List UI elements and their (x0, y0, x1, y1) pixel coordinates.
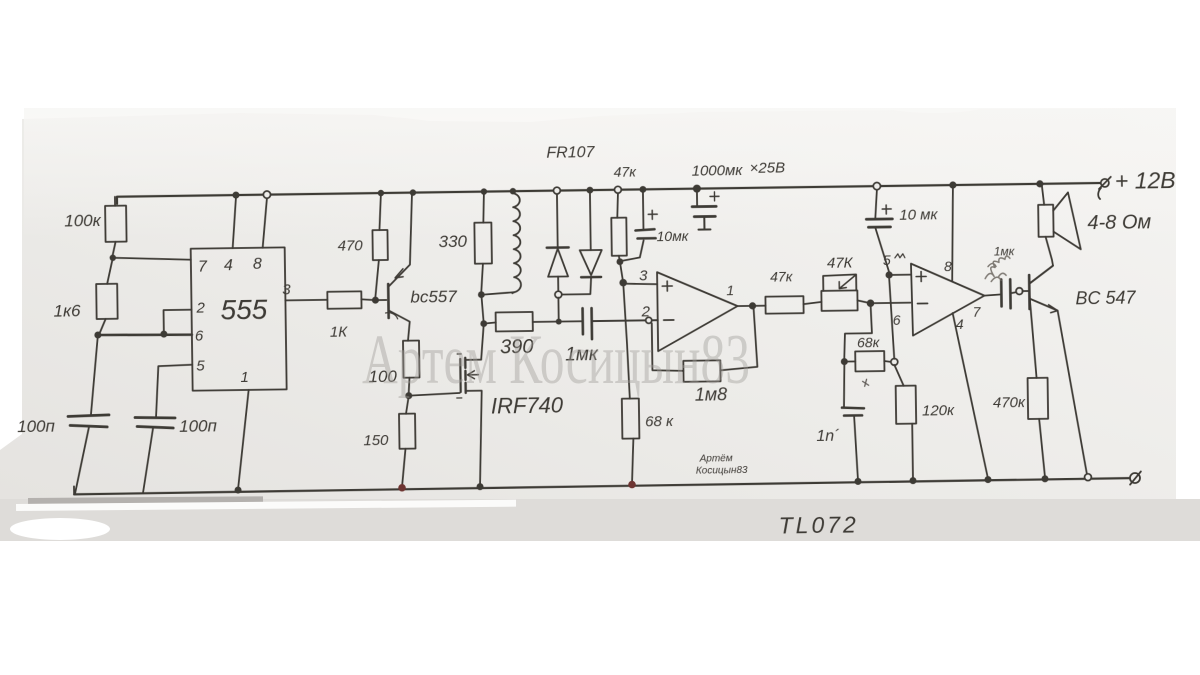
resistor 1k6 (96, 258, 118, 335)
MOSFET IRF740 (456, 354, 483, 491)
wire pins 2 and 6 (98, 310, 192, 339)
transistor Q1 bc557 (374, 189, 418, 341)
capacitor 1000uF 25V (692, 184, 720, 229)
svg-text:10 мк: 10 мк (899, 206, 938, 224)
speaker 4-8 Ohm (1029, 180, 1081, 283)
svg-text:555: 555 (220, 294, 268, 326)
svg-text:×25В: ×25В (749, 159, 785, 176)
capacitor 1n (841, 364, 865, 485)
svg-text:8: 8 (944, 258, 952, 274)
capacitor 10uF #1 (622, 186, 658, 261)
svg-text:FR107: FR107 (546, 144, 595, 162)
svg-text:1n´: 1n´ (816, 428, 840, 445)
potentiometer 47K (821, 274, 870, 311)
svg-text:100п: 100п (17, 417, 56, 437)
speck mark (863, 379, 869, 386)
capacitor 100n #1 (67, 335, 110, 494)
svg-text:100к: 100к (64, 211, 102, 231)
svg-text:5: 5 (196, 358, 205, 375)
node pin5 junction (885, 271, 892, 278)
svg-text:47к: 47к (614, 163, 638, 179)
ground terminal (1130, 471, 1141, 484)
svg-text:Артем Косицын83: Артем Косицын83 (362, 321, 750, 399)
svg-text:4: 4 (224, 257, 233, 274)
svg-text:1мк: 1мк (994, 244, 1016, 258)
resistor 1K (327, 291, 375, 309)
node 390 junction (480, 320, 487, 327)
svg-text:3: 3 (639, 267, 648, 284)
junction dot red 68k/ground (628, 481, 636, 489)
svg-text:470: 470 (338, 237, 364, 254)
resistor 120k (894, 365, 917, 485)
wire drain riser (480, 295, 484, 359)
resistor 390 (496, 311, 583, 331)
wire +12V top power rail (117, 183, 1100, 204)
node pin7/100k/1k6 junction (110, 255, 116, 261)
svg-text:6: 6 (893, 312, 901, 328)
svg-text:100п: 100п (179, 416, 218, 436)
op-amp U1A TL072 (657, 271, 738, 351)
wire pin 5 (155, 365, 193, 418)
svg-text:7: 7 (198, 258, 208, 275)
svg-text:Косицын83: Косицын83 (696, 465, 748, 477)
node pin6/1k6 junction (94, 331, 101, 338)
resistor 47k vertical (611, 186, 627, 262)
wire gate (409, 393, 460, 396)
svg-text:BC 547: BC 547 (1075, 288, 1136, 309)
svg-text:47К: 47К (827, 254, 854, 271)
node gate junction (405, 392, 412, 399)
resistor 1M8 feedback (652, 308, 758, 382)
svg-text:120к: 120к (922, 402, 955, 419)
node pot junction (867, 299, 875, 307)
wire pot to 68k (844, 303, 873, 358)
svg-text:47к: 47к (770, 268, 794, 284)
node pin3 junction (616, 258, 627, 286)
svg-text:1: 1 (726, 282, 734, 298)
wire pin 4 to rail (232, 192, 240, 249)
node diode common (555, 291, 562, 324)
svg-text:1К: 1К (330, 324, 349, 341)
resistor 68k #1 (620, 282, 640, 483)
resistor 470 (372, 190, 388, 297)
svg-text:3: 3 (282, 281, 291, 298)
inductor L1 (476, 188, 521, 298)
resistor 68k #2 (841, 351, 898, 372)
svg-text:68 к: 68 к (645, 413, 674, 430)
+12V terminal (1098, 177, 1111, 199)
svg-text:bc557: bc557 (410, 287, 457, 307)
capacitor 1uF film (583, 307, 658, 339)
resistor 47k horizontal (765, 296, 821, 314)
svg-text:68к: 68к (857, 334, 881, 350)
wire pin 3 (285, 299, 327, 302)
wire pin 8 to rail (262, 191, 271, 248)
resistor 100 (403, 341, 420, 393)
resistor 330 (474, 188, 492, 291)
svg-text:+ 12В: + 12В (1115, 167, 1176, 194)
svg-text:1к6: 1к6 (53, 301, 81, 320)
wire op-amp2 +input (889, 274, 911, 276)
svg-text:TL072: TL072 (778, 511, 859, 538)
wire signal node (484, 322, 496, 323)
wire pin 8 to rail (949, 181, 958, 281)
junction dot red 150/ground (398, 484, 406, 492)
wire pin 1 to ground (233, 390, 250, 494)
scribble smudge (985, 256, 1010, 282)
wire riser pin5 to 68k (889, 278, 894, 359)
svg-text:6: 6 (195, 328, 204, 345)
svg-text:4-8 Ом: 4-8 Ом (1087, 211, 1151, 234)
capacitor 10uF #2 (866, 182, 893, 272)
wire op-amp1 output (737, 302, 765, 310)
svg-text:5: 5 (883, 252, 891, 268)
resistor 150 (399, 396, 416, 487)
wire op-amp2 -input (871, 302, 911, 305)
transistor Q2 BC547 (1029, 265, 1091, 481)
IC U1 555 timer (191, 247, 287, 390)
node base junction bc557 (372, 297, 379, 304)
resistor 100k (105, 197, 127, 255)
wire pin 4 to ground (953, 313, 992, 484)
wire op-amp1 -input (592, 317, 658, 324)
svg-text:470к: 470к (993, 394, 1026, 411)
capacitor 100n #2 (135, 417, 176, 493)
svg-text:1: 1 (240, 369, 249, 386)
ground rail bottom wire (74, 478, 1130, 494)
svg-text:2: 2 (195, 300, 205, 317)
svg-text:Артём: Артём (699, 453, 733, 464)
svg-text:330: 330 (438, 232, 467, 251)
svg-text:1000мк: 1000мк (692, 162, 744, 180)
scribble mark (895, 254, 905, 258)
svg-text:8: 8 (253, 256, 262, 273)
wire op-amp1 +input (623, 283, 657, 284)
signature on paper (696, 453, 748, 477)
wire pin 7 (113, 257, 191, 261)
resistor 470k (1026, 294, 1049, 483)
diode D2 (560, 187, 602, 295)
svg-text:10мк: 10мк (656, 228, 689, 244)
svg-text:150: 150 (363, 432, 389, 449)
capacitor 1uF coupling (984, 279, 1028, 309)
op-amp U2B TL072 (911, 263, 985, 336)
diode D1 FR107 (546, 187, 569, 292)
